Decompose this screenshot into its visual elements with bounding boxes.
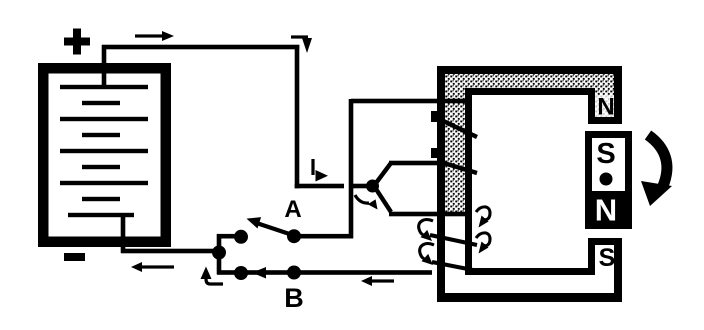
- svg-text:B: B: [284, 283, 304, 313]
- switch A right contact: [287, 229, 301, 243]
- wire vertical bus x=351: [349, 99, 354, 238]
- current arrowhead on B wire: [252, 267, 266, 279]
- battery BT1 body: [38, 63, 171, 247]
- corner hook arrow top: [291, 35, 312, 53]
- stator outer border right upper: [614, 66, 622, 124]
- coil winding bump 2 on outer edge: [431, 148, 437, 158]
- wire coil lower lead y=214: [389, 212, 472, 217]
- rotation arrow: [641, 135, 672, 206]
- svg-text:N: N: [597, 94, 614, 121]
- brush fork upper arm: [376, 163, 391, 183]
- stator outer border top: [437, 66, 622, 74]
- wire vertical drop at x=297: [295, 45, 300, 188]
- stator outer border left: [437, 66, 445, 302]
- svg-text:A: A: [284, 196, 301, 223]
- coil winding diagonal 2: [437, 161, 477, 173]
- wire B-row run: [217, 270, 432, 275]
- wire A-row left stub: [217, 234, 237, 239]
- S pole inner vertical: [588, 238, 595, 275]
- brush motion curl arrow: [355, 195, 378, 210]
- svg-text:S: S: [599, 244, 616, 272]
- switch B left contact: [234, 266, 248, 280]
- wire battery negative stub: [121, 215, 126, 253]
- junction node dot: [212, 246, 226, 260]
- wire coil middle lead y=163: [389, 161, 439, 166]
- S pole face: [588, 238, 622, 245]
- wire junction vertical: [217, 234, 222, 274]
- switch A left contact: [234, 230, 248, 244]
- stator inner edge bottom: [465, 268, 595, 275]
- wire horizontal to bus at y=186: [295, 184, 344, 189]
- wire battery bottom run: [121, 249, 219, 254]
- rotor interior: [592, 138, 625, 223]
- corner hook arrow middle: [311, 159, 328, 182]
- N pole pocket lightening: [595, 95, 614, 117]
- coil loose loop right upper: [476, 207, 490, 228]
- battery cell plates: [60, 85, 148, 217]
- wire coil top lead y=101: [351, 99, 471, 104]
- stator outer border right lower: [614, 238, 622, 302]
- stator inner edge left: [465, 88, 472, 275]
- coil winding diagonal 1: [437, 118, 477, 137]
- coil loose loop left lower: [420, 244, 434, 265]
- switch A open blade with arrowhead: [247, 217, 295, 235]
- N pole inner vertical: [588, 95, 595, 124]
- switch B right contact: [287, 266, 301, 280]
- corner hook arrow bottom: [201, 267, 224, 285]
- brush contact dot: [366, 180, 379, 193]
- current arrow on top wire: [135, 31, 174, 41]
- rotor axle dot: [600, 173, 613, 186]
- battery plus terminal label: [64, 29, 90, 55]
- current arrow on bottom-left wire: [131, 262, 174, 272]
- stator inner edge top: [465, 88, 595, 95]
- battery minus terminal label: [64, 253, 85, 261]
- svg-text:S: S: [596, 138, 615, 170]
- motor stator halftone body: [437, 66, 622, 302]
- N pole face: [588, 117, 622, 124]
- stator white window cutouts: [444, 93, 622, 295]
- coil loose loop right lower: [476, 233, 490, 254]
- current arrow on B wire right: [361, 276, 394, 286]
- brush fork stub: [353, 184, 367, 189]
- wire top horizontal run: [102, 45, 299, 50]
- wire A-row right run to bus: [294, 234, 353, 239]
- brush fork lower arm: [376, 189, 391, 212]
- coil winding bump 1 on outer edge: [431, 111, 437, 122]
- coil lower diagonal connector 2: [432, 262, 473, 270]
- svg-text:N: N: [595, 193, 617, 228]
- stator outer border bottom: [437, 293, 622, 302]
- rotor lower black half: [592, 191, 625, 223]
- coil loose loop left upper: [419, 220, 433, 241]
- coil lower diagonal connector 1: [430, 235, 477, 245]
- wire battery positive stub: [102, 45, 107, 89]
- rotor magnet frame: [585, 131, 632, 229]
